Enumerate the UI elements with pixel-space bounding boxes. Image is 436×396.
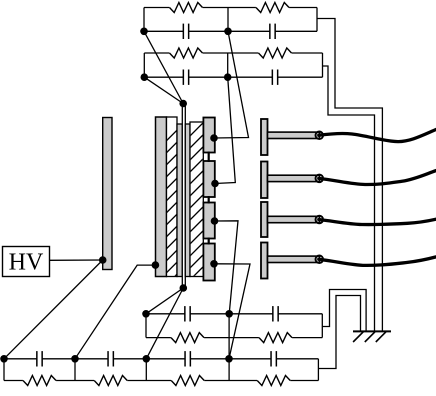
wire row1 to ground: [317, 19, 382, 332]
connector J3: [316, 216, 324, 224]
node strip1: [210, 134, 218, 142]
pickup strip segment 1: [203, 118, 214, 153]
node anode top: [179, 100, 187, 108]
wire row3 capacitor rail: [146, 313, 322, 315]
readout electrode T1: [261, 119, 320, 155]
resistor row4-2: [94, 376, 127, 386]
readout electrode T4: [261, 243, 320, 279]
pickup strip segment 4: [203, 244, 214, 281]
wire HV plate to row4 left node: [4, 260, 103, 359]
resistor row1-1: [169, 3, 202, 13]
capacitor row3-2: [273, 306, 278, 321]
svg-text:HV: HV: [9, 250, 44, 276]
wire row4 right edge: [317, 359, 319, 381]
node anode bottom: [180, 284, 188, 292]
gas gap hatched strip 2: [190, 122, 203, 280]
HV supply box: [3, 247, 50, 277]
wire HV supply to HV plate: [50, 259, 103, 261]
resistor row2-2: [258, 48, 291, 58]
wire row4 resistor rail: [4, 380, 318, 382]
resistor row3-2: [259, 333, 292, 343]
connector J1: [316, 132, 324, 140]
resistor row4-4: [257, 376, 290, 386]
strip link 2: [208, 196, 210, 204]
wire anode bottom to row4 tap 3: [146, 288, 183, 359]
node strip4: [210, 260, 218, 268]
readout electrode T2: [261, 162, 320, 199]
readout electrode T3: [261, 202, 320, 237]
wire row2 capacitor rail: [144, 76, 322, 78]
HV plate electrode: [103, 118, 112, 270]
wire row4 tap 2: [74, 359, 76, 381]
resistor row3-1: [171, 333, 204, 343]
wire row1 left node to anode top: [144, 31, 183, 103]
pickup strip segment 3: [203, 203, 214, 239]
resistor row2-1: [169, 48, 202, 58]
capacitor row4-1: [37, 351, 42, 366]
wire row2 right edge: [322, 53, 324, 77]
node row4-3: [143, 355, 151, 363]
wire row3 right edge: [321, 314, 323, 338]
gas gap hatched strip 1: [167, 117, 178, 285]
inner plate left: [177, 124, 182, 277]
inner plate right: [185, 124, 190, 277]
wire row3 left edge: [145, 314, 147, 338]
capacitor row1-2: [270, 24, 275, 39]
signal cable 1: [319, 130, 436, 142]
wire row1 right edge: [316, 8, 318, 32]
anode foil: [182, 105, 185, 289]
node HV plate: [99, 256, 107, 264]
wire row2 left edge: [143, 53, 145, 77]
wire row3 middle tap down to row4: [228, 314, 230, 381]
strip link 3: [208, 238, 210, 245]
wire row2 middle tap: [227, 53, 229, 77]
connector J2: [316, 175, 324, 183]
node row2 middle: [224, 73, 232, 81]
capacitor row4-2: [108, 351, 113, 366]
wire row1 left edge: [143, 8, 145, 32]
strip link 1: [208, 152, 210, 163]
wire row1 middle tap: [227, 8, 229, 32]
wire strip4 to row4 tap 4: [214, 264, 250, 359]
wire row3 to ground: [322, 290, 366, 332]
node strip2: [211, 180, 219, 188]
node row2 left: [141, 73, 149, 81]
capacitor row4-4: [271, 351, 276, 366]
connector J4: [316, 255, 324, 263]
node row3 middle: [225, 310, 233, 318]
wire strip2 to row2 middle tap: [215, 77, 235, 183]
capacitor row1-1: [183, 24, 188, 39]
node strip3: [211, 217, 219, 225]
capacitor row2-2: [272, 70, 277, 85]
signal cable 3: [319, 219, 436, 224]
resistor row4-1: [23, 376, 56, 386]
wire row1 capacitor rail: [144, 30, 317, 32]
wire strip3 to row3 middle tap: [215, 221, 239, 314]
node row1 left: [140, 28, 148, 36]
node row4-4: [225, 355, 233, 363]
cathode plate: [156, 117, 167, 277]
pickup strip segment 2: [203, 161, 214, 197]
wire row4 tap 3: [145, 359, 147, 381]
wire row4 capacitor rail: [4, 358, 318, 360]
wire row2 resistor rail: [144, 52, 322, 54]
capacitor row4-3: [185, 351, 190, 366]
resistor row1-2: [256, 3, 289, 13]
wire anode bottom to row3 left node: [146, 288, 183, 314]
capacitor row2-1: [183, 70, 188, 85]
signal cable 4: [319, 257, 436, 266]
wire row1 resistor rail: [144, 7, 317, 9]
capacitor row3-1: [185, 306, 190, 321]
wire row2 left node to anode top: [144, 77, 183, 103]
wire row4 left edge: [3, 359, 5, 381]
signal cable 2: [319, 171, 436, 185]
node row1 middle: [224, 28, 232, 36]
node row4-2: [71, 355, 79, 363]
wire strip1 to row1 middle tap: [214, 31, 249, 138]
wire row3 resistor rail: [146, 337, 322, 339]
resistor row4-3: [171, 376, 204, 386]
wire row4 to ground: [318, 296, 360, 369]
wire cathode to row4 tap 2: [75, 265, 155, 359]
ground: [353, 331, 391, 342]
node cathode: [152, 261, 160, 269]
wire row2 to ground: [323, 66, 375, 331]
node row4-1: [0, 355, 8, 363]
node row3 left: [142, 310, 150, 318]
